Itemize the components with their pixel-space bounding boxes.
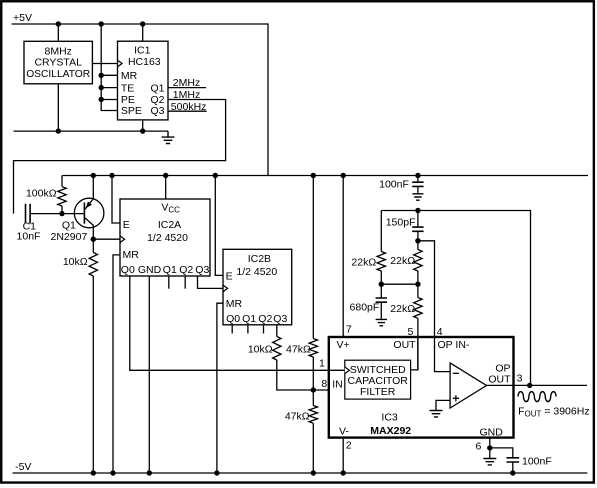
junction -5V/10k — [91, 470, 96, 475]
wire 100nF to ground — [417, 186, 419, 192]
wire 22k left bottom — [380, 271, 382, 284]
wire IC2A Q1 stub — [168, 276, 170, 289]
ground symbol op-amp — [430, 410, 443, 417]
resistor 22k bottom — [414, 298, 422, 319]
junction rail2/IC2A E — [109, 173, 114, 178]
wire IC2B Q0 stub — [231, 325, 233, 334]
svg-text:10kΩ: 10kΩ — [248, 343, 273, 355]
op-amp U-internal triangle — [450, 363, 486, 408]
capacitor 100nF top — [412, 182, 423, 186]
svg-text:IC2A: IC2A — [158, 219, 181, 231]
wire 10k to -5V — [92, 276, 94, 473]
wire Q3 output 500kHz — [168, 110, 207, 112]
resistor 100k — [58, 187, 66, 206]
svg-text:IC1: IC1 — [134, 44, 151, 56]
resistor 22k right — [414, 250, 422, 272]
wire bus to MR — [101, 74, 117, 76]
wire 150pF top stub — [417, 211, 419, 228]
wire IC1 VCC — [142, 24, 144, 41]
wire R 100k to base node — [61, 206, 63, 214]
wire IC2A MR to -5V — [113, 255, 120, 473]
svg-text:SPE: SPE — [121, 105, 142, 117]
junction -5V/IC2A MR — [110, 470, 115, 475]
capacitor 150pF — [412, 227, 423, 231]
svg-text:GND: GND — [480, 426, 504, 438]
svg-text:47kΩ: 47kΩ — [285, 411, 310, 423]
wire pin6 to ground — [489, 448, 491, 458]
svg-text:10kΩ: 10kΩ — [63, 256, 88, 268]
junction gnd rail/IC1 — [140, 128, 145, 133]
junction +5V/IC1 VCC — [140, 21, 145, 26]
junction -5V/100nF — [510, 470, 515, 475]
wire mid to 22k bottom — [417, 284, 419, 297]
wire op-amp plus to ground — [436, 400, 450, 409]
junction -5V/IC2B MR — [214, 470, 219, 475]
counter IC2A box — [120, 199, 210, 276]
wire Q1 output 2MHz — [168, 87, 206, 89]
svg-text:10nF: 10nF — [17, 231, 41, 243]
svg-text:Q2: Q2 — [258, 313, 272, 325]
svg-text:Q1: Q1 — [242, 313, 256, 325]
svg-text:22kΩ: 22kΩ — [351, 256, 376, 268]
junction -5V/IC2A GND — [147, 470, 152, 475]
wire pin6 to 100nF — [490, 448, 513, 458]
svg-text:MR: MR — [123, 249, 140, 261]
svg-text:1/2 4520: 1/2 4520 — [147, 232, 188, 244]
junction bus/MR — [99, 73, 104, 78]
node Q1 collector — [91, 237, 96, 242]
clock input arrow IC2A — [120, 236, 125, 243]
wire pin 2 V- to -5V — [342, 438, 344, 473]
svg-text:V+: V+ — [337, 339, 350, 351]
svg-text:6: 6 — [475, 440, 481, 452]
wire IC1 ground — [142, 120, 144, 131]
wire loop left down — [380, 211, 382, 252]
svg-text:Q0: Q0 — [226, 313, 240, 325]
wire +5V rail — [12, 24, 268, 176]
svg-text:7: 7 — [346, 323, 352, 335]
svg-text:IN: IN — [332, 379, 343, 391]
svg-text:2: 2 — [346, 439, 352, 451]
svg-text:100kΩ: 100kΩ — [26, 187, 57, 199]
oscillator X1 box — [24, 41, 92, 84]
junction rail2/IC2A VCC — [163, 173, 168, 178]
wire 22k right top stub — [417, 241, 419, 250]
wire ground rail — [14, 130, 169, 132]
wire 680pF bottom stub — [380, 302, 382, 319]
wire IN node to 47k lower — [312, 390, 314, 406]
node 150pF/22k junction — [415, 238, 420, 243]
wire input bus — [101, 24, 117, 111]
svg-text:Q1: Q1 — [62, 219, 76, 231]
svg-text:47kΩ: 47kΩ — [286, 343, 311, 355]
svg-text:OSCILLATOR: OSCILLATOR — [26, 68, 90, 80]
junction rail2/Q1 emitter — [91, 173, 96, 178]
counter IC2B box — [223, 249, 292, 324]
wire IC2A Q0 to MAX292 pin1 — [130, 276, 345, 370]
junction -5V/47k — [311, 470, 316, 475]
wire collector to IC2A clock — [93, 238, 120, 240]
capacitor 680pF — [376, 298, 387, 302]
wire rail2 to 47k upper — [312, 176, 314, 339]
resistor 22k left — [377, 252, 385, 272]
svg-text:E: E — [123, 219, 130, 231]
svg-text:-5V: -5V — [15, 461, 31, 473]
filter IC3 MAX292 box — [329, 337, 514, 438]
wire crystal VCC — [57, 24, 59, 41]
svg-text:CRYSTAL: CRYSTAL — [34, 56, 82, 68]
wire +5V rail2 — [62, 175, 588, 177]
svg-text:100nF: 100nF — [379, 179, 409, 191]
svg-text:V-: V- — [339, 425, 349, 437]
svg-text:MR: MR — [121, 70, 138, 82]
wire rail2 to pin 7 V+ — [342, 176, 344, 338]
svg-text:MR: MR — [226, 298, 243, 310]
junction rail2/pin7 — [341, 173, 346, 178]
junction -5V/pin2 — [341, 470, 346, 475]
transistor Q1 2N2907 — [74, 198, 104, 228]
svg-text:Q1: Q1 — [150, 82, 164, 94]
junction output/feedback — [527, 383, 532, 388]
op-amp minus sign — [453, 372, 459, 374]
wire IC2A VCC — [165, 176, 167, 200]
wire 680pF top stub — [380, 284, 382, 298]
wire bus to PE — [101, 99, 117, 101]
svg-text:Q0: Q0 — [121, 264, 135, 276]
wire pin 6 GND down — [489, 438, 491, 448]
svg-text:3: 3 — [517, 372, 523, 384]
svg-text:22kΩ: 22kΩ — [390, 255, 415, 267]
node Q1 base — [59, 211, 64, 216]
wire junction to op-amp minus (pin 4) — [418, 241, 450, 372]
junction rail2/IC2B E — [213, 173, 218, 178]
svg-text:OUT: OUT — [488, 374, 511, 386]
junction rail2/47k — [311, 173, 316, 178]
node 680pF junction — [379, 282, 384, 287]
ground symbol pin6 — [483, 458, 496, 465]
svg-text:1/2 4520: 1/2 4520 — [236, 266, 277, 278]
wire 150pF bottom stub — [417, 231, 419, 241]
clock input arrow IC2B — [223, 285, 228, 292]
svg-text:Q3: Q3 — [195, 264, 209, 276]
svg-text:+5V: +5V — [13, 12, 32, 24]
wire 10k to IN node — [277, 360, 329, 390]
svg-text:Q1: Q1 — [163, 264, 177, 276]
svg-text:E: E — [226, 271, 233, 283]
junction +5V/input bus — [99, 21, 104, 26]
resistor 10k — [89, 253, 97, 277]
svg-text:HC163: HC163 — [128, 56, 161, 68]
junction +5V/crystal — [56, 21, 61, 26]
svg-text:8: 8 — [321, 378, 327, 390]
wire Q1 collector — [92, 225, 94, 252]
wire rail2 to 100nF — [417, 176, 419, 183]
wire IC2B Q1 stub — [247, 325, 249, 334]
wire IC2A E input — [112, 176, 120, 224]
wire 47k lower to -5V — [312, 423, 314, 473]
node pin6 junction — [487, 445, 492, 450]
capacitor 100nF bottom — [506, 458, 519, 462]
node IN junction — [311, 387, 316, 392]
wire 22k right bottom — [417, 271, 419, 284]
capacitor C1 — [26, 204, 31, 224]
svg-text:680pF: 680pF — [350, 302, 380, 314]
wire 47k upper to IN node — [312, 357, 314, 390]
wire -5V rail — [13, 472, 588, 474]
wire 22k bottom to pin5 — [411, 318, 418, 370]
svg-text:150pF: 150pF — [386, 216, 416, 228]
switched capacitor filter block — [345, 360, 411, 399]
node 22k mid junction — [415, 282, 420, 287]
svg-text:OP IN-: OP IN- — [438, 339, 470, 351]
resistor 10k filter input — [273, 337, 281, 361]
junction bus/PE — [99, 97, 104, 102]
svg-text:IC2B: IC2B — [248, 253, 271, 265]
svg-text:FILTER: FILTER — [360, 386, 396, 398]
svg-text:GND: GND — [138, 264, 162, 276]
ground symbol 680pF — [376, 319, 387, 326]
svg-text:MAX292: MAX292 — [370, 425, 411, 437]
wire feedback top — [381, 211, 530, 386]
sine wave symbol — [518, 392, 556, 402]
wire C1 to base node — [30, 213, 84, 215]
resistor 47k upper — [309, 339, 317, 358]
junction feedback/150pF — [415, 208, 420, 213]
wire Q1 emitter — [92, 176, 94, 200]
svg-text:OUT: OUT — [393, 339, 416, 351]
wire IC2A GND to -5V — [148, 276, 150, 473]
wire pin5 inside — [417, 337, 419, 370]
junction rail2/100nF — [415, 173, 420, 178]
clock input arrow filter — [345, 367, 350, 374]
junction bus/TE — [99, 85, 104, 90]
wire crystal output to IC1 clock — [92, 63, 117, 65]
svg-text:2N2907: 2N2907 — [51, 231, 88, 243]
ground symbol IC1 — [162, 131, 175, 143]
wire bus to TE — [101, 87, 117, 89]
svg-text:1: 1 — [319, 358, 325, 370]
svg-text:TE: TE — [121, 82, 134, 94]
wire IC2B MR to -5V — [217, 303, 223, 473]
wire IC2B Q2 stub — [263, 325, 265, 334]
counter IC1 box — [118, 41, 169, 120]
clock input arrow IC1 — [118, 60, 123, 67]
svg-text:22kΩ: 22kΩ — [390, 303, 415, 315]
wire crystal ground — [57, 84, 59, 131]
svg-text:Q2: Q2 — [179, 264, 193, 276]
op-amp plus sign — [453, 395, 459, 401]
wire IC2A Q3 to IC2B clock — [198, 276, 224, 288]
wire 100nF bottom to -5V — [512, 462, 514, 473]
wire rail2 to R 100k — [61, 176, 63, 187]
wire Q2 output 1MHz — [14, 100, 226, 214]
wire op-amp output — [487, 384, 588, 386]
svg-text:Q3: Q3 — [273, 313, 287, 325]
svg-text:IC3: IC3 — [381, 412, 398, 424]
resistor 47k lower — [309, 406, 317, 424]
wire mid link — [381, 283, 418, 285]
wire IC2B Q3 to 10k — [276, 325, 278, 337]
svg-text:100nF: 100nF — [522, 456, 552, 468]
wire IC2B E input — [215, 176, 223, 276]
wire IC2A Q2 stub — [184, 276, 186, 289]
ground symbol 100nF top — [412, 193, 423, 200]
svg-text:Q3: Q3 — [150, 105, 164, 117]
junction gnd rail/crystal — [56, 128, 61, 133]
